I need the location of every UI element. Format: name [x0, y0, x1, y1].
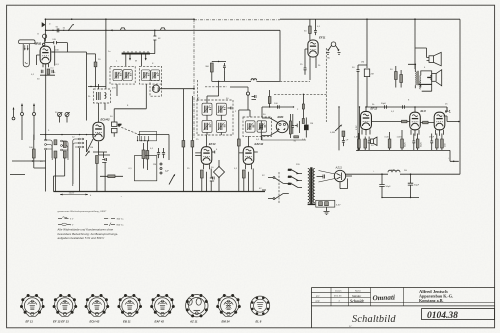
tube EL8 no2	[434, 107, 450, 136]
oscillator coil box dashed	[94, 89, 111, 103]
svg-text:EM 34: EM 34	[222, 320, 231, 324]
coupling capacitor kW	[45, 41, 68, 44]
svg-text:EF 12 EF 13: EF 12 EF 13	[53, 320, 69, 324]
dipole antenna input arrows	[22, 105, 34, 113]
voltage selector taps	[288, 170, 302, 188]
dimension arrow under chassis	[60, 194, 88, 196]
wire bus drop to coil bar	[150, 30, 155, 53]
large speaker	[430, 70, 442, 86]
IF link diamond	[214, 167, 225, 178]
resistor in switch bank	[32, 149, 35, 158]
voice coil blob	[427, 77, 431, 78]
EAF42 cathode parts	[242, 170, 245, 178]
EF12 top node	[365, 106, 367, 108]
svg-text:50µF: 50µF	[414, 184, 420, 186]
mixer bottom components	[87, 139, 108, 152]
dashed AVC line	[274, 93, 326, 95]
IF coil can 2 dashed	[139, 66, 161, 84]
svg-text:EM4: EM4	[278, 115, 284, 119]
wire output top vertical	[414, 19, 416, 69]
coil hump on bus 1	[120, 28, 125, 30]
wire EF11 cathode down	[40, 67, 55, 140]
tube EF11 second RF	[308, 35, 326, 60]
power transformer core	[310, 167, 312, 204]
magic eye EM4	[262, 115, 288, 135]
cathode components EL stage	[388, 139, 391, 148]
svg-text:7 V: 7 V	[70, 224, 74, 226]
resistor below	[294, 136, 299, 138]
resistor osc mixer	[54, 140, 57, 145]
left stub wires	[12, 160, 46, 162]
svg-text:Name: Name	[355, 291, 362, 293]
screen resistors pair	[182, 141, 185, 148]
band switch rail 2	[138, 134, 169, 136]
wire top HT bus	[45, 18, 460, 20]
grid resistor EL	[423, 121, 429, 124]
switch cluster mid	[134, 156, 156, 181]
plate resistor above EF11	[309, 26, 312, 34]
IF transformer can 3 dashed	[197, 100, 233, 135]
trimmer stub can3	[228, 107, 232, 110]
svg-text:1M: 1M	[310, 123, 313, 125]
can4 coil left	[246, 121, 256, 132]
IF3 coil bottom left	[202, 120, 212, 132]
svg-text:300 V=: 300 V=	[117, 218, 125, 220]
cap to ground T	[295, 121, 300, 133]
wire to mixer grid	[51, 43, 86, 121]
tube EF11	[35, 30, 60, 67]
IF3 coil top left	[202, 103, 212, 115]
tube socket ECH42	[85, 294, 110, 316]
grid stopper cluster above can3	[212, 61, 226, 63]
svg-text:25µF: 25µF	[429, 137, 435, 139]
svg-text:1,65V: 1,65V	[397, 137, 403, 139]
tube EF12	[361, 107, 378, 136]
tube EAF42	[239, 136, 264, 169]
svg-text:gepr: gepr	[316, 300, 321, 303]
power transformer primary	[308, 169, 310, 203]
title block outline	[312, 288, 495, 328]
svg-text:Schmidt: Schmidt	[350, 298, 364, 303]
svg-text:EF13: EF13	[209, 142, 216, 146]
output transformer	[408, 64, 432, 92]
svg-text:Konstanz a.B.: Konstanz a.B.	[419, 298, 443, 303]
wire screen line vertical	[193, 19, 195, 138]
second winding small	[419, 81, 422, 89]
band switch contact columns	[45, 138, 84, 151]
series capacitor C on antenna bus	[57, 28, 59, 32]
dashed pickup lead	[325, 48, 327, 122]
node EL8 no1 grid	[414, 106, 416, 108]
svg-text:1M: 1M	[90, 147, 93, 149]
coil hump on bus 2	[160, 28, 165, 30]
screen cap above	[314, 19, 317, 35]
svg-text:Schaltbild: Schaltbild	[352, 314, 396, 325]
heater line 6,3V	[359, 107, 361, 150]
wire AZ11 output loop	[340, 176, 352, 189]
tube EL8 no1	[410, 107, 426, 136]
wire output grid drop	[446, 107, 448, 112]
svg-text:m: m	[449, 112, 451, 114]
tube socket AZ11	[186, 294, 208, 324]
can4 coil right	[257, 121, 267, 132]
svg-text:1,65V: 1,65V	[354, 137, 360, 139]
filter cap 2	[408, 174, 413, 197]
tube socket EM34	[216, 294, 241, 316]
AVC switch arrow	[86, 151, 90, 156]
input connector arrow	[42, 22, 46, 27]
filter cap 1	[379, 174, 384, 197]
svg-text:AZ11: AZ11	[335, 166, 343, 170]
node	[52, 30, 53, 31]
small junction dots on buses	[105, 30, 106, 31]
drawing number box	[422, 309, 495, 320]
svg-text:EL 8: EL 8	[256, 320, 262, 324]
wire shielded AVC segment	[194, 19, 280, 21]
node bus junctions	[45, 18, 47, 20]
cathode resistor EF11	[47, 69, 50, 74]
EF13 cathode parts	[200, 170, 203, 178]
wave band switch on bus	[69, 25, 74, 31]
svg-text:aufgaben beständen 5 W und 500: aufgaben beständen 5 W und 500 V	[58, 236, 106, 240]
svg-text:5k25: 5k25	[405, 141, 407, 147]
wire can4 top	[239, 107, 269, 130]
switch housing	[140, 131, 157, 141]
svg-text:50µF: 50µF	[386, 186, 392, 188]
legend symbol row 2 right	[104, 223, 115, 225]
tube socket EAF42	[150, 294, 175, 316]
coil bar taps down	[126, 55, 146, 67]
svg-text:16,6V: 16,6V	[69, 193, 75, 195]
svg-text:EB 11: EB 11	[123, 320, 131, 324]
svg-text:gez: gez	[316, 296, 320, 298]
svg-text:EF11: EF11	[35, 41, 42, 45]
caps under rail	[157, 148, 165, 158]
cathode capacitor EF11	[41, 70, 53, 73]
detector jack	[230, 87, 256, 100]
legend symbol row 1 left	[58, 217, 69, 219]
svg-text:800 V=: 800 V=	[117, 224, 125, 226]
antenna input jack	[43, 34, 47, 38]
svg-text:G: G	[37, 34, 39, 36]
wire AVC vertical	[366, 19, 368, 107]
trimmer capacitors	[58, 113, 62, 117]
wires in can3	[207, 81, 221, 135]
wires below cans	[114, 84, 156, 117]
resistor AVC left	[63, 141, 66, 147]
tuning gang diagonal	[118, 126, 140, 135]
oscillator padder cluster	[112, 117, 122, 137]
electrolytic cap dark	[304, 125, 309, 131]
resistor between cans	[237, 139, 240, 146]
svg-text:0104.38: 0104.38	[427, 311, 458, 321]
node cathode bus junction	[453, 161, 455, 163]
heater terminal box	[316, 200, 335, 207]
resistor horizontal near ground	[108, 175, 115, 178]
svg-text:AZ 11: AZ 11	[189, 320, 198, 324]
pickup jack	[331, 42, 336, 47]
wire rounded corner to IF	[168, 135, 170, 161]
wire AF line	[219, 80, 280, 82]
wire B+ line from rectifier	[346, 173, 461, 175]
transformer centre tap cap	[317, 175, 325, 179]
rectifier AZ11	[319, 166, 346, 182]
wire osc box top	[99, 84, 106, 110]
tube ECH42	[93, 103, 110, 141]
svg-text:0,5M: 0,5M	[330, 132, 335, 134]
capacitor at bus drop	[153, 36, 156, 40]
band switch rail	[40, 134, 95, 136]
svg-text:2M: 2M	[371, 74, 374, 76]
IF3 coil bottom right	[216, 120, 226, 132]
coil pair in can2	[141, 70, 150, 81]
feedback mini speaker	[371, 137, 378, 146]
small speaker	[415, 48, 441, 66]
IF3 coil top right	[216, 103, 226, 115]
wire HT bus right drop	[459, 19, 461, 174]
dashed AF extension	[280, 80, 310, 82]
node EL plate junction	[458, 121, 460, 123]
EL8 no2 plate wire	[444, 116, 448, 122]
wire RF feed vertical	[105, 19, 107, 89]
wire EL plate to B+	[447, 121, 460, 123]
ground return line	[382, 197, 419, 199]
wire detector bottom	[261, 136, 306, 141]
100pF cap on AF line	[278, 105, 280, 108]
IF coil can 1 dashed	[110, 66, 135, 84]
legend symbol row 2 left	[58, 223, 71, 225]
ferrite coil bar	[122, 53, 150, 55]
mains input terminals	[262, 189, 266, 191]
svg-text:Datum: Datum	[335, 290, 342, 293]
svg-text:49.2.53: 49.2.53	[334, 296, 342, 298]
coupling cap	[403, 105, 405, 109]
svg-text:4µF: 4µF	[165, 171, 169, 173]
dashed AVC line	[205, 86, 227, 88]
detector coupling caps	[260, 121, 263, 141]
tube socket EF12 EF13	[53, 294, 78, 316]
switch bracket wires	[50, 139, 75, 186]
tube EF13	[195, 135, 216, 169]
wire antenna bus	[46, 29, 280, 31]
coil pair in can1	[113, 70, 122, 81]
mains double-pole switch	[268, 172, 289, 204]
svg-text:EF11: EF11	[319, 35, 326, 39]
svg-text:EF12: EF12	[371, 107, 378, 111]
title block small table grid	[312, 288, 495, 306]
svg-text:Sänder: Sänder	[352, 294, 362, 298]
svg-text:EF 11: EF 11	[26, 320, 34, 324]
tube socket EL8	[251, 296, 270, 324]
switch contacts column	[160, 163, 162, 165]
legend symbol row 1 right	[104, 217, 115, 219]
svg-text:2H: 2H	[404, 170, 407, 172]
AVC feed resistor	[302, 94, 304, 118]
RF choke on AF line	[251, 79, 257, 81]
resistor under rail	[146, 151, 149, 160]
RF plate resistor branch	[87, 54, 106, 87]
tube socket EF11	[20, 294, 45, 316]
detector resistor	[268, 97, 271, 104]
svg-text:gemessene Wechselspannungsstel: gemessene Wechselspannungsstellung „UKW“	[58, 210, 107, 213]
wire cathode bus output stage	[356, 150, 459, 161]
wires below EF11	[305, 49, 316, 80]
funnel wires to EM4	[262, 118, 278, 136]
svg-text:EAF 42: EAF 42	[155, 320, 165, 324]
svg-text:6,3V: 6,3V	[336, 204, 341, 206]
wire chassis ground bus	[54, 191, 266, 193]
svg-text:ECH 42: ECH 42	[90, 320, 100, 324]
wire AF coupling top line	[366, 106, 447, 108]
aux antenna terminal	[13, 108, 15, 117]
svg-text:EL8: EL8	[421, 109, 427, 113]
svg-text:EAF42: EAF42	[255, 142, 264, 146]
volume potentiometer	[338, 107, 340, 150]
IF can4 dashed	[243, 117, 272, 136]
power transformer HT secondary	[313, 169, 315, 203]
ground symbol under transformer	[324, 207, 330, 214]
svg-text:Omnati: Omnati	[372, 294, 395, 303]
svg-text:50pF: 50pF	[381, 103, 387, 105]
antenna symbol	[19, 40, 35, 44]
wire bank to ground	[46, 140, 87, 192]
cathode components row EF12	[358, 139, 361, 148]
svg-text:2M: 2M	[153, 164, 156, 166]
speaker field resistors	[395, 72, 398, 80]
svg-text:5 V: 5 V	[70, 218, 74, 220]
AVC resistor box	[364, 69, 369, 77]
EF12 plate resistor horizontal	[402, 120, 408, 123]
svg-text:M: M	[135, 61, 137, 63]
filter choke	[388, 170, 400, 172]
svg-text:5k25: 5k25	[421, 141, 423, 147]
tube socket EB11	[117, 294, 142, 316]
diode load resistor stack	[289, 121, 291, 134]
svg-text:1M: 1M	[361, 62, 364, 64]
coupling link circle	[150, 81, 162, 97]
grid cap 50pF	[385, 105, 387, 109]
pentode plate wire to IF can	[99, 142, 111, 156]
wire right drop to AF line	[279, 30, 281, 81]
svg-text:ECH42: ECH42	[101, 117, 110, 121]
